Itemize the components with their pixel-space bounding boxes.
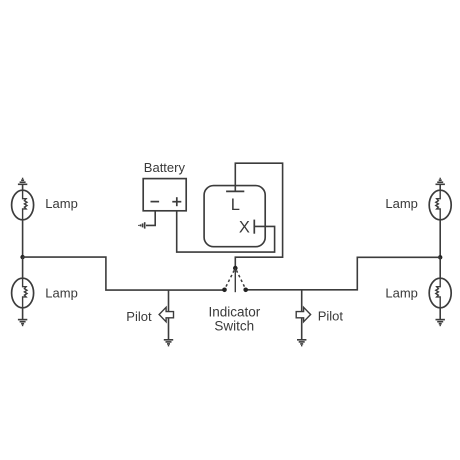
wire: lamp LP3 to node B: [439, 220, 441, 257]
ground G1 (flipped, above top-left lamp): [18, 179, 27, 185]
wire: ground G1 to lamp LP1: [22, 184, 24, 190]
wire: node B to lamp LP4: [439, 257, 441, 278]
svg-text:Lamp: Lamp: [385, 285, 418, 300]
relay terminal X bar: [253, 220, 255, 234]
svg-text:Lamp: Lamp: [385, 196, 418, 211]
svg-text:L: L: [231, 196, 240, 214]
ground G3 (flipped, above top-right lamp): [436, 179, 445, 185]
wire: node A to left step: [23, 257, 225, 290]
wire: node B to right step: [246, 257, 441, 290]
svg-text:Pilot: Pilot: [126, 309, 152, 324]
lamp LP2 (bottom left): [12, 278, 34, 308]
wire: ground G3 to lamp LP3: [439, 184, 441, 190]
battery B1: [143, 179, 186, 211]
ground G6 (left pilot): [164, 340, 173, 346]
node C (switch pole dot): [233, 266, 238, 271]
svg-text:Lamp: Lamp: [45, 285, 78, 300]
node B (right lamps junction): [438, 255, 442, 259]
pilot arrow right: [296, 307, 310, 322]
wire: lamp LP2 to ground G2: [22, 308, 24, 320]
lamp LP1 (top left): [12, 190, 34, 220]
wire: lamp LP4 to ground G4: [439, 308, 441, 320]
node A (left lamps junction): [20, 255, 24, 259]
lamp LP3 (top right): [429, 190, 451, 220]
ground G2 (below bottom-left lamp): [18, 320, 27, 326]
ground G5 (battery, sideways left): [139, 222, 145, 228]
svg-text:Indicator: Indicator: [209, 304, 261, 319]
pilot arrow left: [159, 307, 173, 322]
wire: battery minus to ground G5: [146, 211, 155, 226]
svg-text:Battery: Battery: [144, 160, 186, 175]
relay terminal L bar: [226, 190, 244, 192]
battery minus terminal: [151, 201, 160, 203]
wire: right pilot drop: [301, 290, 303, 340]
node D (switch left contact): [222, 288, 227, 293]
ground G4 (below bottom-right lamp): [436, 320, 445, 326]
svg-text:Lamp: Lamp: [45, 196, 78, 211]
switch pole line: [234, 268, 236, 292]
wire: relay L loop to switch pole: [235, 163, 282, 268]
wire: left pilot drop: [168, 290, 170, 340]
wire: lamp LP1 to node A: [22, 220, 24, 257]
ground G7 (right pilot): [297, 340, 306, 346]
flasher relay U1: [204, 186, 265, 247]
switch dashed throw right: [236, 270, 245, 288]
switch dashed throw left: [225, 270, 234, 288]
svg-text:Switch: Switch: [214, 319, 254, 334]
svg-text:X: X: [239, 219, 250, 237]
lamp LP4 (bottom right): [429, 278, 451, 308]
battery plus terminal: [172, 197, 181, 206]
wire: battery plus down and to relay X: [177, 211, 275, 252]
wire: node A to lamp LP2: [22, 257, 24, 278]
svg-text:Pilot: Pilot: [318, 309, 344, 324]
label Indicator Switch: [209, 304, 261, 333]
node E (switch right contact): [243, 288, 248, 293]
